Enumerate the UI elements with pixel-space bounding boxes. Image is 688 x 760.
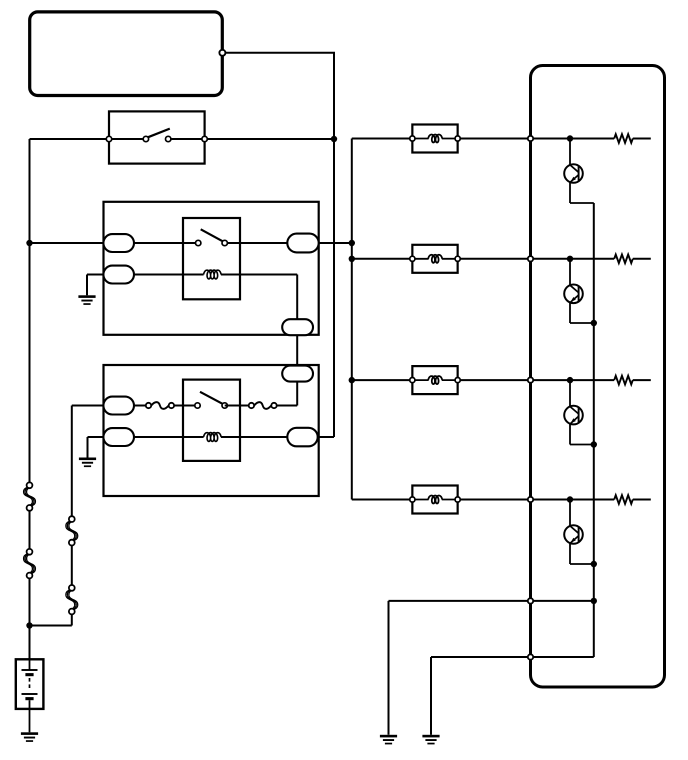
connector pill 1D <box>287 234 318 253</box>
fusible link F3 <box>66 521 75 541</box>
noise filter NF2 inner wire <box>412 258 428 260</box>
wire transistor 1 to common line <box>569 182 571 203</box>
relay R2 inner box <box>183 380 240 461</box>
noise filter NF4 terminals <box>410 497 415 502</box>
noise filter NF1 terminals <box>410 136 415 141</box>
junction dot row 2 lamp <box>567 256 573 262</box>
wire lamp row 4 <box>531 499 615 501</box>
noise filter NF3 coil <box>428 376 442 384</box>
lamp unit pin circle row 3 <box>528 377 533 382</box>
wire relay R2 coil row <box>88 436 204 438</box>
relay R2 coil <box>204 433 222 442</box>
ground G2 <box>79 458 96 461</box>
noise filter NF1 box <box>412 125 457 153</box>
connector pill 1C (bottom) <box>282 319 313 335</box>
ground G1 <box>78 295 95 298</box>
wire control unit to node A <box>225 52 335 54</box>
transistor (diode sensor) Q3 <box>564 406 583 425</box>
wire to ground G2 <box>87 437 89 458</box>
connector pill 2F <box>287 428 317 447</box>
wire after resistor row 1 <box>633 138 651 140</box>
wire transistor 2 to common line <box>569 302 571 323</box>
lamp unit pin circle row 2 <box>528 256 533 261</box>
wire battery junction to fuse line 2 <box>30 625 72 627</box>
junction dot node E (battery junction) <box>26 622 32 628</box>
resistor (bulb filament) R1 <box>614 134 633 143</box>
noise filter NF3 terminals <box>410 378 415 383</box>
wire bus to noise filter 1 <box>352 138 413 140</box>
fusible link F4 <box>66 590 75 610</box>
wire after resistor row 3 <box>633 379 651 381</box>
pin circle on control unit <box>219 50 225 56</box>
wire row 4 to transistor <box>569 500 571 526</box>
rear combination lamp unit box <box>531 66 665 688</box>
transistor (diode sensor) Q4 <box>564 525 583 544</box>
noise filter NF4 box <box>412 486 457 514</box>
wire transistor 4 to common line <box>569 543 571 564</box>
resistor (bulb filament) R4 <box>614 495 633 504</box>
wire lamp row 3 <box>531 379 615 381</box>
wire after resistor row 4 <box>633 499 651 501</box>
connector pill 1A <box>103 234 134 252</box>
noise filter NF1 coil <box>428 135 442 143</box>
wire after resistor row 2 <box>633 258 651 260</box>
battery positive feed wire (vertical left bus) <box>29 139 31 483</box>
common sense line (vertical) <box>593 203 595 657</box>
switch SW1 blade <box>148 129 170 138</box>
ground G4 <box>422 735 439 738</box>
wire squiggle S1 to contact <box>174 405 197 407</box>
wire relay R1 contact to bus node <box>225 242 352 244</box>
relay R2 switch contacts <box>195 403 200 408</box>
taillight relay box outline <box>104 202 319 335</box>
wire lamp row 1 <box>531 138 615 140</box>
wire noise filter 1 to lamp unit <box>458 138 531 140</box>
noise filter NF3 inner wire <box>412 379 428 381</box>
lamp unit pin circle row 1 <box>528 136 533 141</box>
junction dot node A (switch feed) <box>331 136 337 142</box>
wire transistor 3 to common line <box>569 424 571 445</box>
lamp unit pin circle ground 1 <box>528 598 533 603</box>
noise filter NF2 box <box>412 245 457 273</box>
resistor (bulb filament) R2 <box>614 255 633 264</box>
wire fuse line to relay R2 row <box>72 405 146 407</box>
ground G3 <box>380 735 397 738</box>
lighting switch box <box>109 111 205 163</box>
wire noise filter 4 to lamp unit <box>458 499 531 501</box>
junction dot row 1 lamp <box>567 135 573 141</box>
relay R1 inner box <box>183 218 240 299</box>
wire row 1 to transistor <box>569 139 571 165</box>
wire left bus to switch <box>30 138 146 140</box>
wire noise filter 3 to lamp unit <box>458 379 531 381</box>
resistor (bulb filament) R3 <box>614 376 633 385</box>
relay R1 switch blade <box>201 229 223 241</box>
wire lamp unit ground 2 <box>431 656 594 658</box>
connector pill 1B <box>103 266 134 284</box>
junction dot row 4 lamp <box>567 496 573 502</box>
relay R1 switch contacts <box>196 240 201 245</box>
fusible link F2 <box>24 554 33 574</box>
common line junction dots <box>591 320 597 326</box>
battery ground <box>21 732 38 735</box>
wire row 2 to transistor <box>569 259 571 285</box>
wire node B to relay R1 contact <box>30 242 199 244</box>
connector pill 2E (top) <box>282 366 313 382</box>
connector squiggle S1 <box>151 402 169 409</box>
noise filter NF1 inner wire <box>412 138 428 140</box>
noise filter NF4 inner wire <box>412 499 428 501</box>
wire row 3 to transistor <box>569 380 571 406</box>
second fuse line (vertical) <box>71 406 73 517</box>
transistor (diode sensor) Q2 <box>564 285 583 304</box>
wire relay R1 coil row <box>87 274 204 276</box>
noise filter NF3 box <box>412 366 457 394</box>
junction dot node B (feed to taillight relay) <box>26 240 32 246</box>
bus junction dot relay feed <box>349 240 355 246</box>
bus junction dot row2 <box>349 256 355 262</box>
wire bus to noise filter 3 <box>352 379 413 381</box>
connector pill 2B <box>103 428 134 446</box>
wire squiggle S2 up to pill <box>277 405 298 407</box>
wire bus to noise filter 4 <box>352 499 413 501</box>
connector squiggle S2 <box>254 402 271 409</box>
fusible link F1 <box>24 487 33 506</box>
distribution bus wire <box>351 139 353 500</box>
wire lamp row 2 <box>531 258 615 260</box>
noise filter NF2 coil <box>428 255 442 263</box>
relay R2 switch blade <box>200 392 222 404</box>
wire to ground G1 <box>86 275 88 296</box>
lamp unit pin circle row 4 <box>528 497 533 502</box>
junction dot row 3 lamp <box>567 377 573 383</box>
engine control unit box <box>30 12 223 96</box>
wire contact to squiggle S2 <box>225 405 252 407</box>
wire bus to noise filter 2 <box>352 258 413 260</box>
battery <box>16 659 44 709</box>
dimmer relay box outline <box>104 365 319 496</box>
noise filter NF4 coil <box>428 496 442 504</box>
lamp unit pin circle ground 2 <box>528 654 533 659</box>
switch SW1 contact circles <box>143 136 148 141</box>
transistor (diode sensor) Q1 <box>564 164 583 183</box>
relay R1 coil <box>204 270 222 279</box>
wire switch to node A <box>168 138 334 140</box>
wire lamp unit ground 1 <box>389 600 594 602</box>
wire noise filter 2 to lamp unit <box>458 258 531 260</box>
bus junction dot row3 <box>349 377 355 383</box>
connector pill 2A <box>103 397 134 415</box>
noise filter NF2 terminals <box>410 256 415 261</box>
